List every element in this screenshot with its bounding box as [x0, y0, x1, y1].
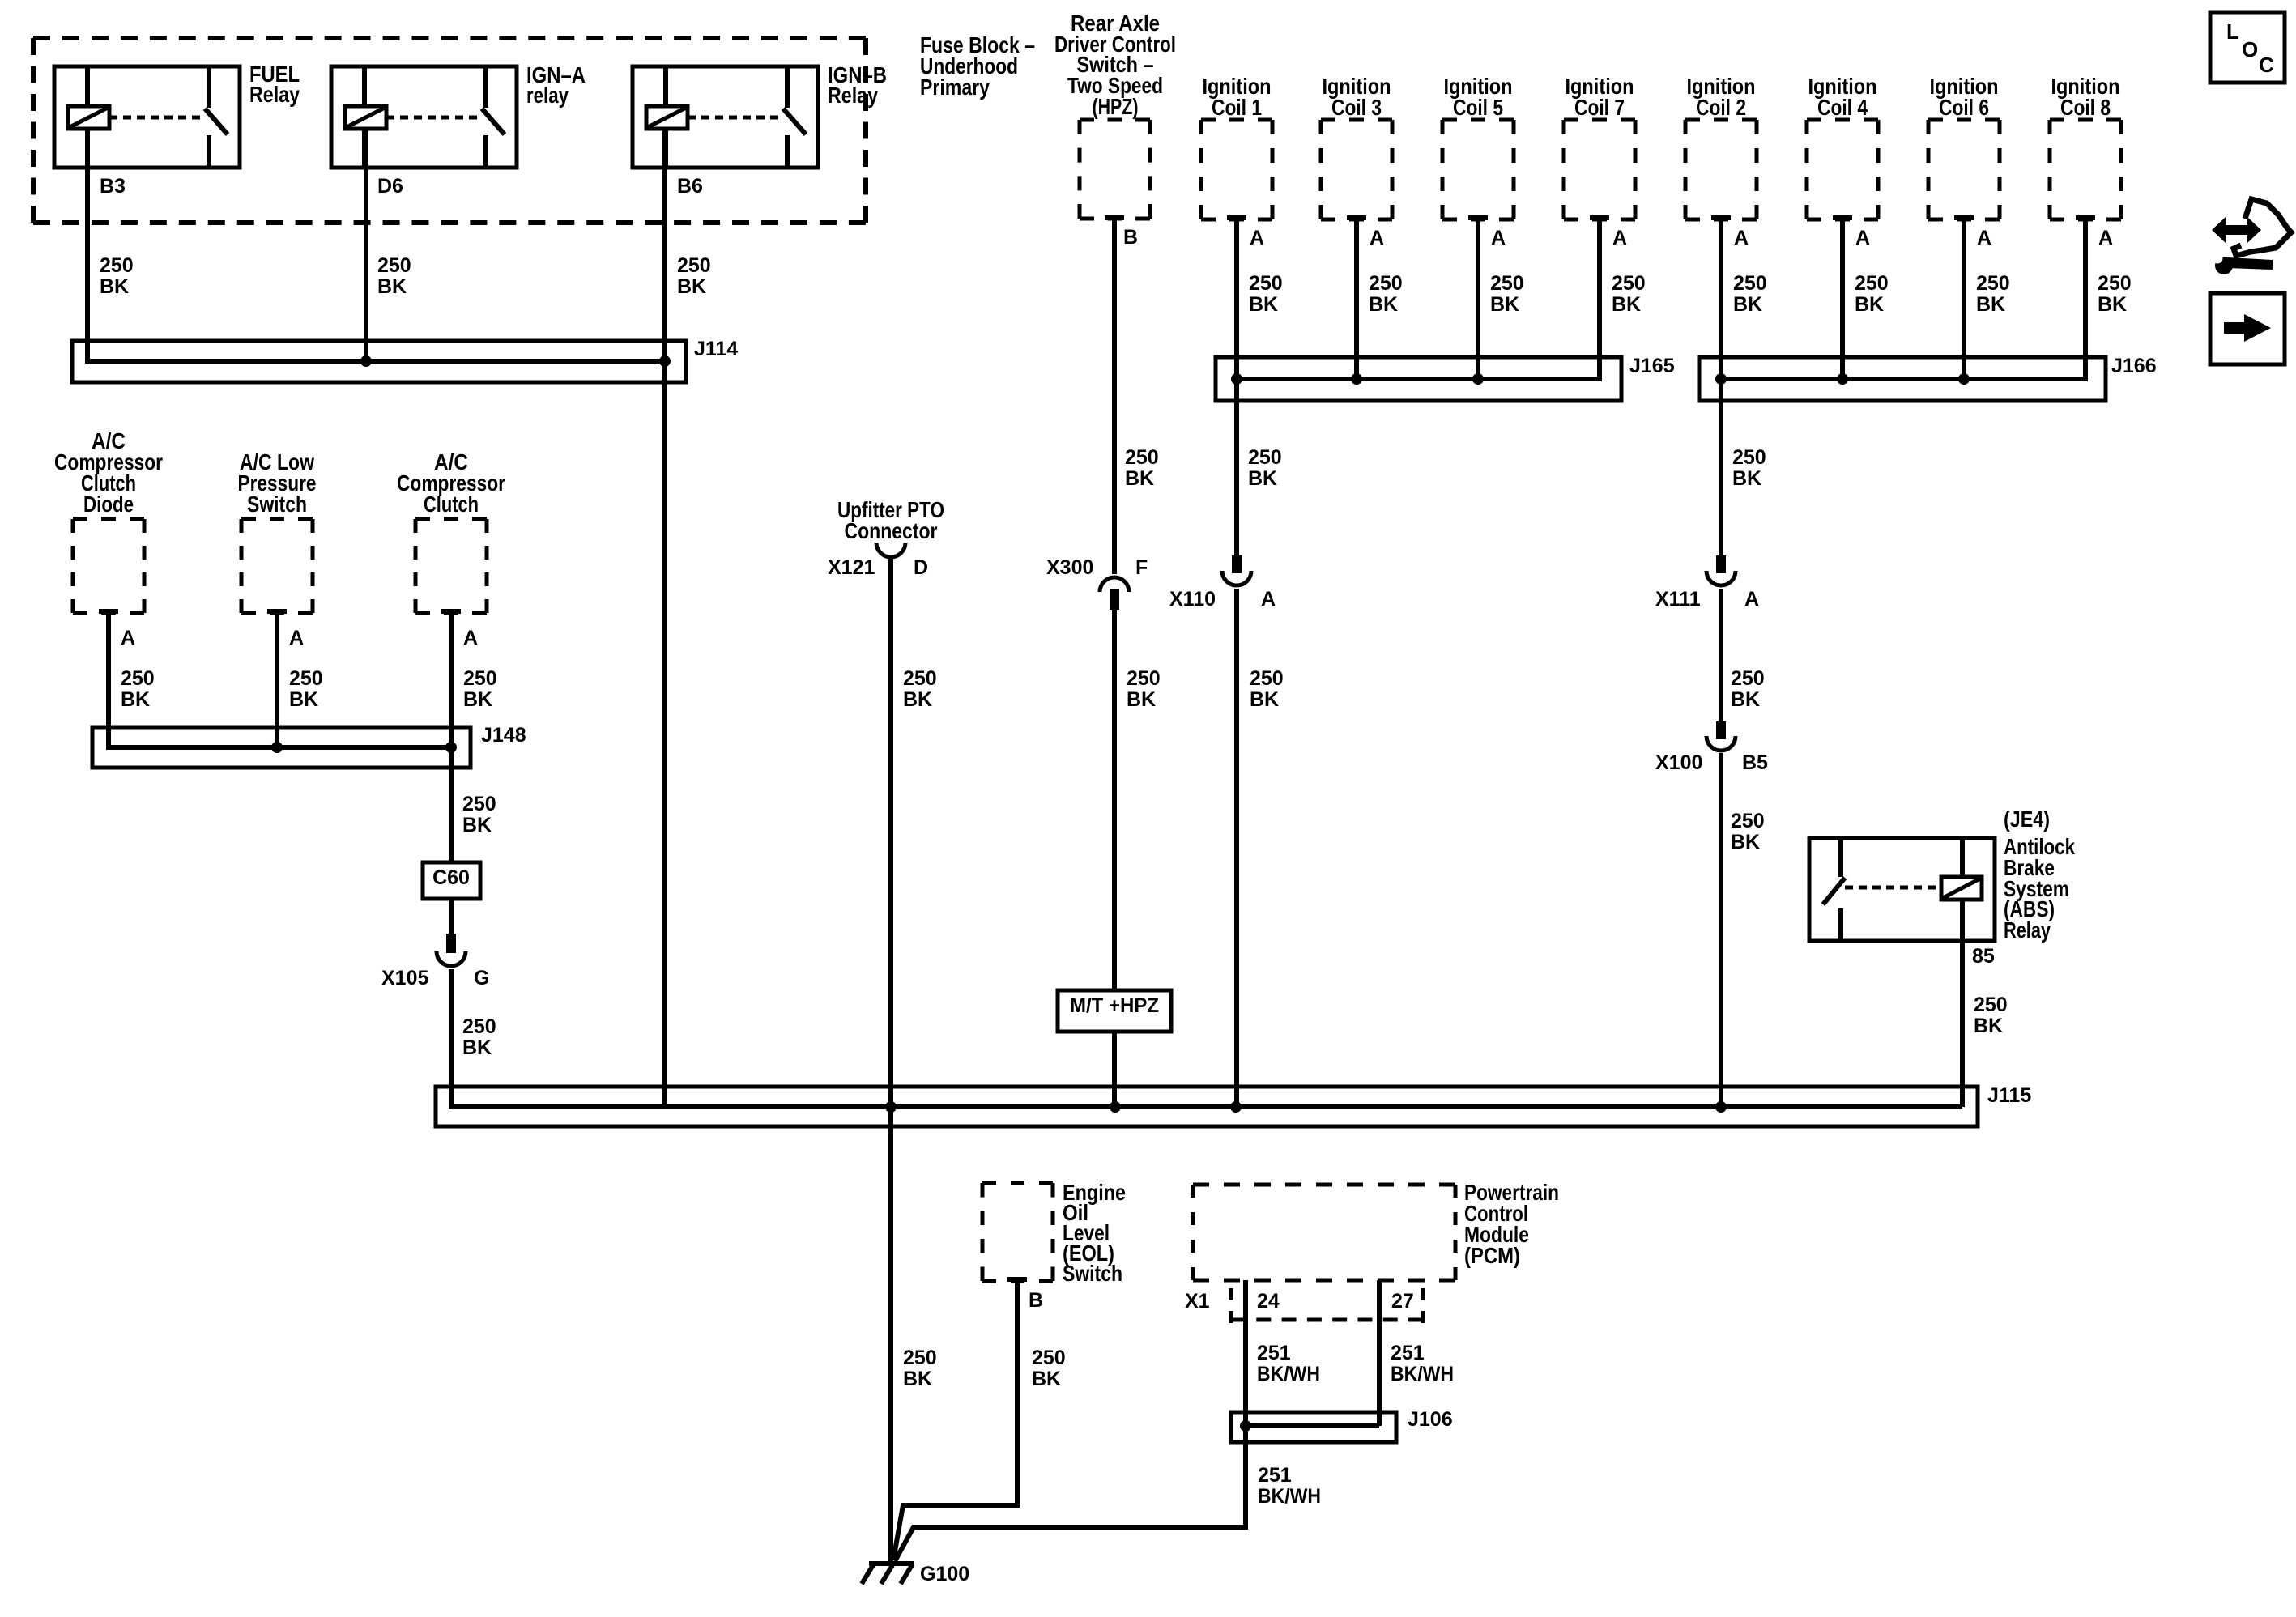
svg-text:250: 250: [1249, 272, 1283, 295]
svg-text:250: 250: [1731, 667, 1765, 690]
svg-text:BK: BK: [1490, 293, 1519, 316]
svg-text:Coil 8: Coil 8: [2060, 95, 2111, 120]
svg-text:BK: BK: [1855, 293, 1884, 316]
svg-text:D6: D6: [377, 175, 403, 198]
svg-text:BK: BK: [1731, 688, 1760, 711]
svg-text:C60: C60: [432, 866, 470, 889]
svg-text:B3: B3: [100, 175, 126, 198]
svg-text:BK: BK: [1250, 688, 1279, 711]
svg-text:Primary: Primary: [920, 74, 990, 100]
svg-text:250: 250: [289, 667, 323, 690]
svg-text:Clutch: Clutch: [424, 491, 479, 517]
svg-text:24: 24: [1257, 1290, 1280, 1313]
svg-text:250: 250: [1731, 810, 1765, 832]
svg-text:Coil 1: Coil 1: [1212, 95, 1262, 120]
svg-text:250: 250: [903, 667, 937, 690]
svg-text:J166: J166: [2111, 355, 2157, 377]
svg-text:250: 250: [1855, 272, 1889, 295]
svg-text:A: A: [1977, 227, 1991, 249]
svg-text:BK/WH: BK/WH: [1391, 1363, 1454, 1385]
svg-text:Coil 7: Coil 7: [1574, 95, 1625, 120]
svg-text:Coil 6: Coil 6: [1939, 95, 1989, 120]
svg-text:F: F: [1135, 556, 1148, 579]
svg-text:B6: B6: [677, 175, 703, 198]
svg-text:27: 27: [1391, 1290, 1414, 1313]
svg-text:250: 250: [121, 667, 155, 690]
svg-text:A: A: [121, 627, 135, 649]
svg-text:BK: BK: [462, 1036, 492, 1059]
svg-text:BK: BK: [1976, 293, 2005, 316]
svg-text:B: B: [1123, 226, 1138, 249]
svg-text:251: 251: [1257, 1342, 1291, 1364]
svg-text:250: 250: [1369, 272, 1403, 295]
svg-text:A: A: [1261, 588, 1276, 611]
svg-text:M/T +HPZ: M/T +HPZ: [1070, 994, 1159, 1017]
svg-text:BK: BK: [677, 275, 706, 298]
svg-text:BK/WH: BK/WH: [1257, 1363, 1320, 1385]
svg-text:BK: BK: [1249, 293, 1278, 316]
svg-text:BK: BK: [1733, 293, 1762, 316]
svg-text:A: A: [463, 627, 478, 649]
svg-text:250: 250: [1974, 994, 2008, 1016]
svg-text:X1: X1: [1185, 1290, 1210, 1313]
svg-text:BK: BK: [100, 275, 129, 298]
svg-text:B5: B5: [1742, 751, 1768, 774]
svg-text:250: 250: [677, 254, 711, 277]
svg-text:250: 250: [1732, 446, 1766, 469]
svg-text:J165: J165: [1629, 355, 1675, 377]
svg-text:J148: J148: [481, 724, 526, 747]
svg-text:Connector: Connector: [845, 518, 938, 543]
svg-text:BK: BK: [1732, 467, 1761, 490]
svg-text:BK: BK: [1127, 688, 1156, 711]
svg-text:85: 85: [1972, 945, 1995, 968]
svg-text:A: A: [1491, 227, 1506, 249]
svg-text:BK/WH: BK/WH: [1258, 1485, 1321, 1508]
svg-text:Switch: Switch: [1063, 1261, 1122, 1286]
svg-text:BK: BK: [463, 688, 492, 711]
svg-text:BK: BK: [2098, 293, 2127, 316]
svg-text:A: A: [1734, 227, 1749, 249]
svg-text:250: 250: [2098, 272, 2132, 295]
svg-text:X121: X121: [828, 556, 875, 579]
svg-text:250: 250: [462, 793, 496, 815]
svg-text:D: D: [914, 556, 928, 579]
svg-text:J115: J115: [1987, 1084, 2031, 1107]
svg-text:250: 250: [100, 254, 134, 277]
svg-text:X111: X111: [1655, 588, 1701, 611]
svg-text:250: 250: [1612, 272, 1646, 295]
svg-text:B: B: [1029, 1289, 1043, 1312]
svg-text:(PCM): (PCM): [1464, 1243, 1520, 1268]
svg-text:A: A: [1250, 227, 1264, 249]
svg-text:A: A: [1370, 227, 1384, 249]
svg-text:250: 250: [1733, 272, 1767, 295]
svg-text:BK: BK: [1612, 293, 1641, 316]
svg-text:250: 250: [377, 254, 411, 277]
svg-text:G100: G100: [920, 1563, 969, 1585]
svg-text:Relay: Relay: [249, 82, 300, 107]
svg-text:A: A: [289, 627, 304, 649]
svg-text:BK: BK: [903, 688, 932, 711]
svg-text:X100: X100: [1655, 751, 1702, 774]
svg-text:250: 250: [1125, 446, 1159, 469]
svg-text:X105: X105: [381, 967, 428, 989]
svg-text:Coil 4: Coil 4: [1817, 95, 1868, 120]
svg-text:BK: BK: [1125, 467, 1154, 490]
svg-text:Coil 3: Coil 3: [1331, 95, 1382, 120]
svg-text:G: G: [474, 967, 489, 989]
svg-text:250: 250: [903, 1347, 937, 1369]
svg-text:J106: J106: [1408, 1408, 1453, 1431]
svg-text:250: 250: [1976, 272, 2010, 295]
svg-text:X300: X300: [1046, 556, 1093, 579]
svg-text:251: 251: [1258, 1464, 1292, 1487]
svg-text:BK: BK: [1974, 1015, 2003, 1037]
svg-text:X110: X110: [1169, 588, 1216, 611]
svg-text:250: 250: [462, 1015, 496, 1038]
svg-text:(HPZ): (HPZ): [1093, 94, 1139, 119]
svg-text:J114: J114: [694, 338, 738, 360]
svg-text:C: C: [2259, 53, 2274, 77]
svg-text:BK: BK: [1369, 293, 1398, 316]
svg-text:L: L: [2226, 19, 2239, 44]
svg-text:(JE4): (JE4): [2004, 806, 2050, 832]
svg-text:250: 250: [1490, 272, 1524, 295]
svg-text:250: 250: [1248, 446, 1282, 469]
svg-text:Relay: Relay: [2004, 917, 2051, 943]
svg-text:Coil 2: Coil 2: [1696, 95, 1746, 120]
svg-text:251: 251: [1391, 1342, 1425, 1364]
svg-text:BK: BK: [1731, 831, 1760, 853]
svg-text:BK: BK: [289, 688, 318, 711]
svg-text:Diode: Diode: [83, 491, 134, 517]
svg-text:250: 250: [1127, 667, 1161, 690]
svg-text:250: 250: [1250, 667, 1284, 690]
svg-text:BK: BK: [1032, 1368, 1061, 1390]
svg-text:A: A: [1744, 588, 1759, 611]
svg-text:BK: BK: [903, 1368, 932, 1390]
svg-text:BK: BK: [377, 275, 407, 298]
svg-text:A: A: [1855, 227, 1870, 249]
svg-text:relay: relay: [526, 83, 569, 108]
svg-text:Relay: Relay: [828, 83, 878, 108]
svg-text:A: A: [1612, 227, 1627, 249]
svg-text:Coil 5: Coil 5: [1453, 95, 1503, 120]
svg-text:BK: BK: [121, 688, 150, 711]
svg-text:BK: BK: [462, 814, 492, 836]
svg-text:250: 250: [1032, 1347, 1066, 1369]
svg-text:A: A: [2098, 227, 2113, 249]
svg-text:250: 250: [463, 667, 497, 690]
svg-text:O: O: [2242, 37, 2258, 62]
svg-text:BK: BK: [1248, 467, 1277, 490]
svg-text:Switch: Switch: [247, 491, 307, 517]
